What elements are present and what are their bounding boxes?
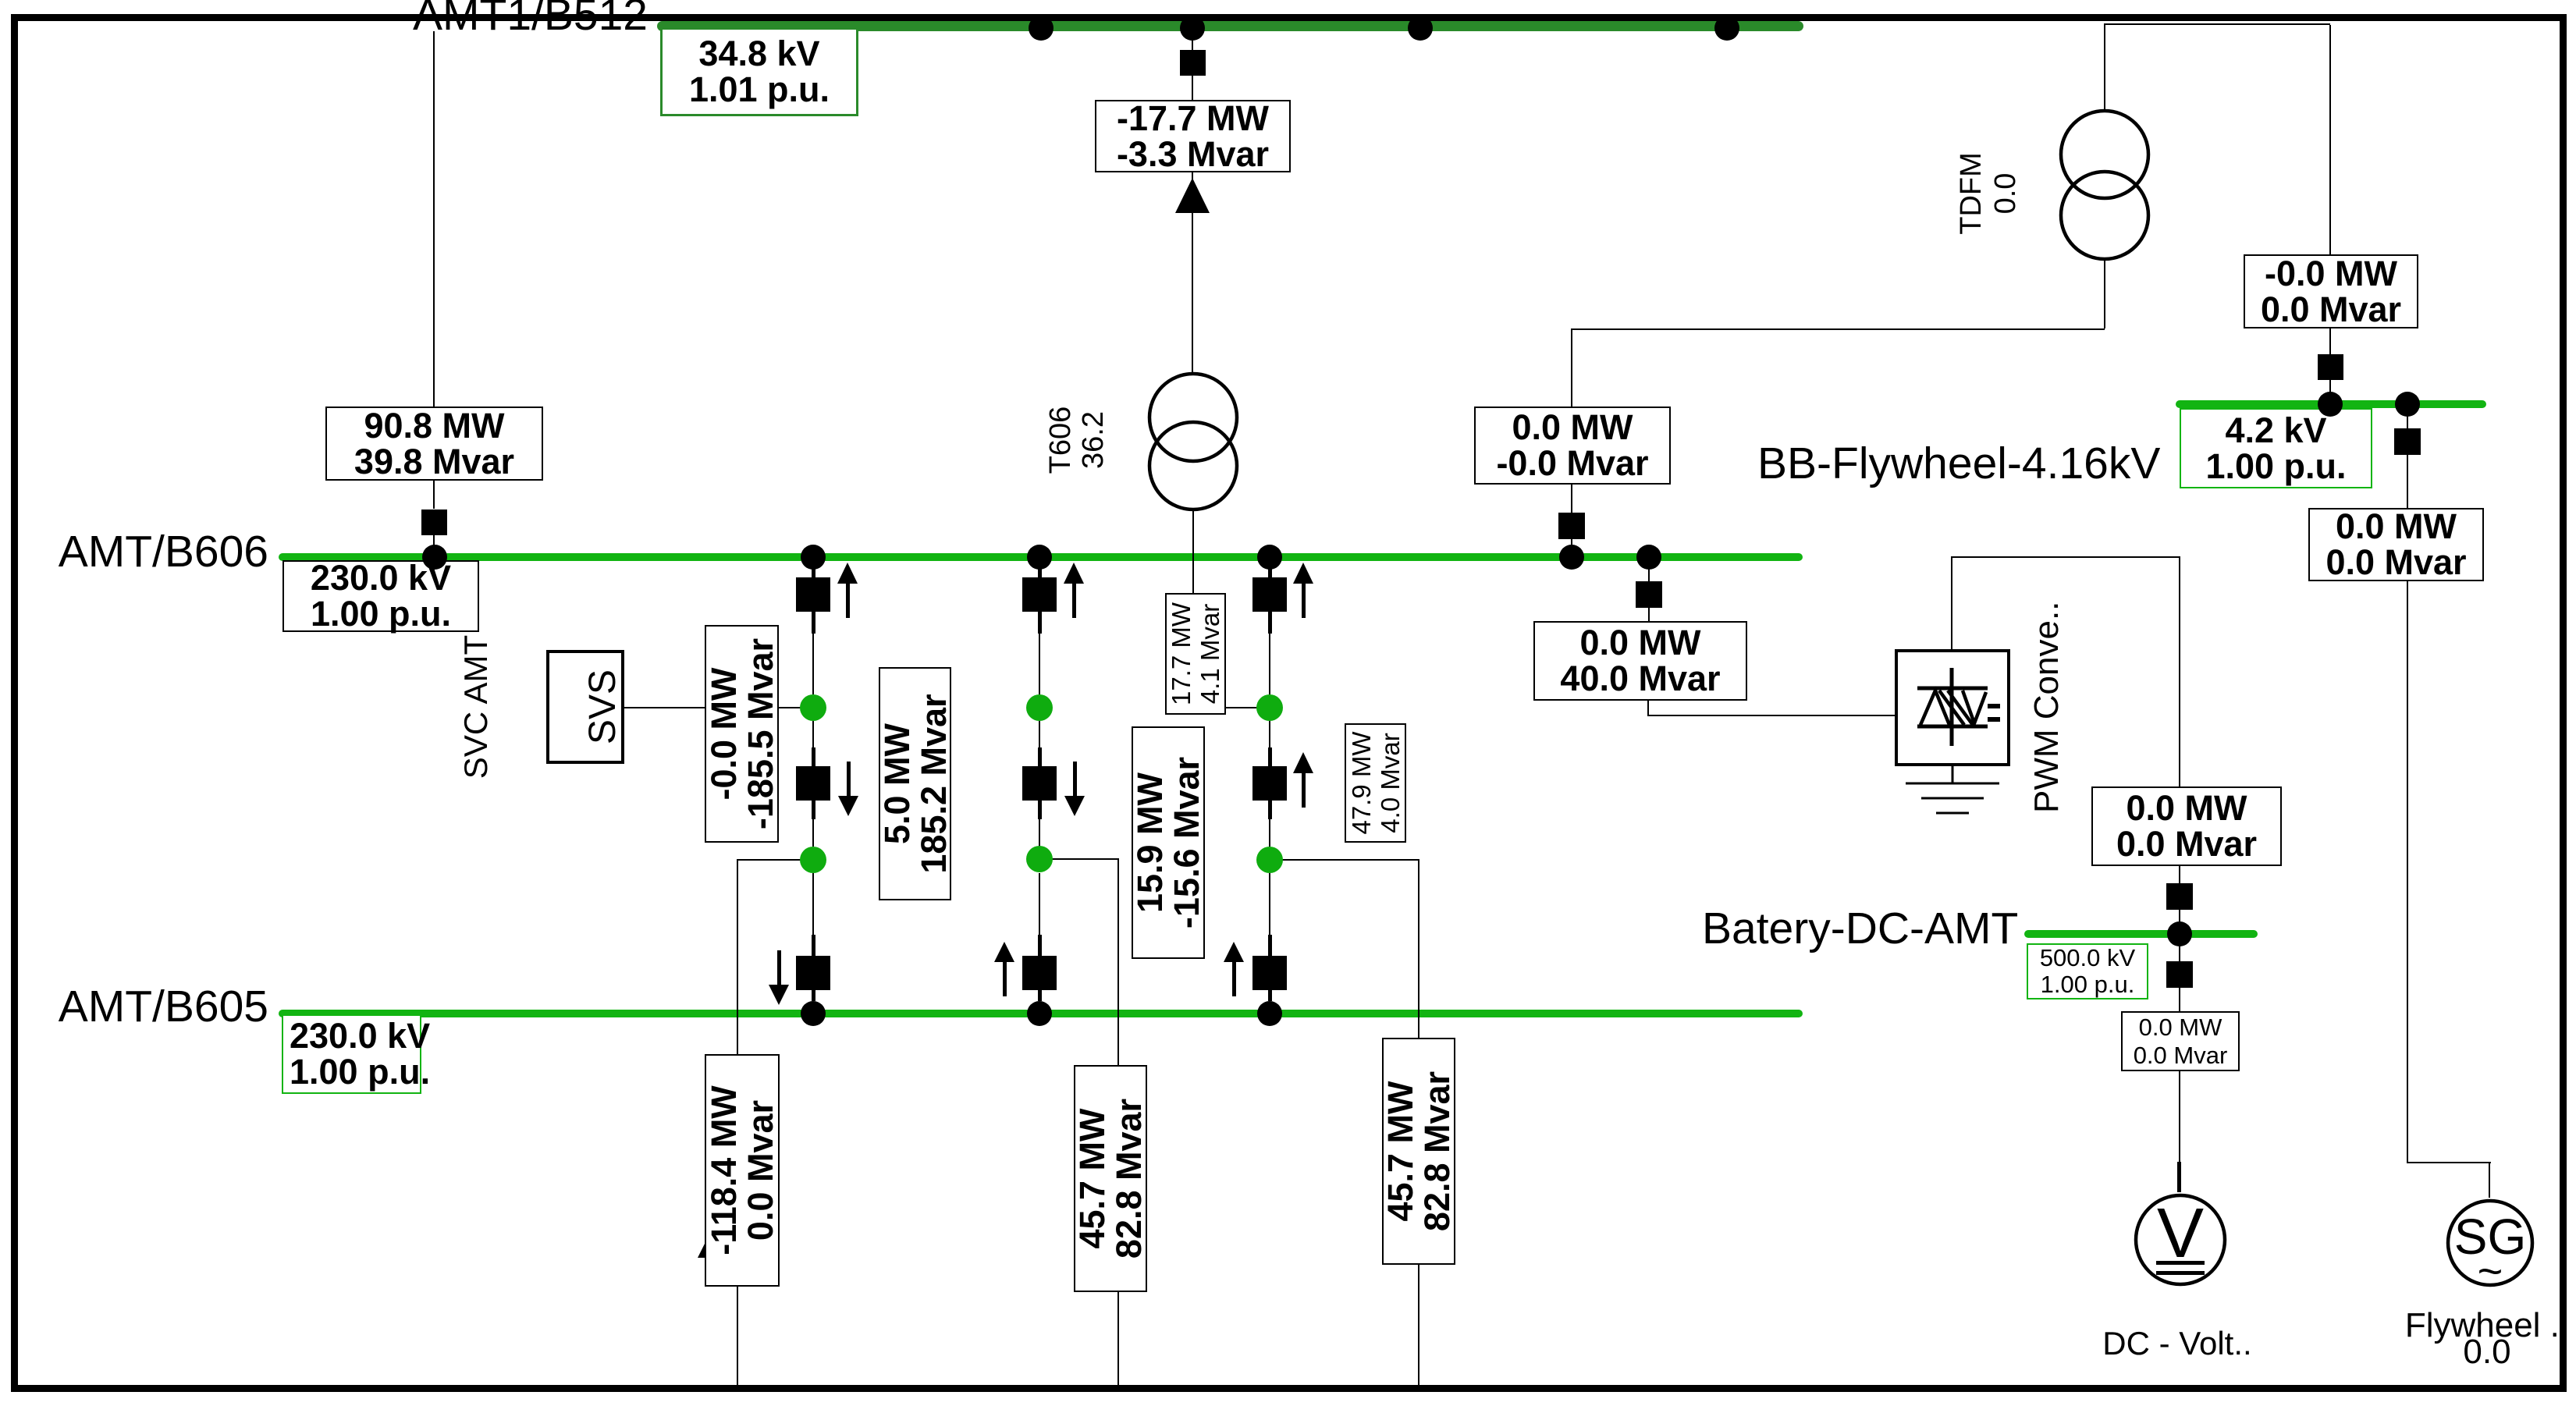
bus AMT/B606	[279, 553, 1803, 561]
wire feeder2 seg2	[1039, 634, 1040, 694]
junction BB bus TDFM	[2318, 392, 2343, 417]
wire battery box to breaker	[2179, 866, 2180, 884]
wire TDFM LV drop	[2104, 260, 2105, 328]
junction battery bus	[2167, 921, 2192, 946]
node feeder2 lower	[1026, 846, 1053, 872]
wire 45.7 load A upper	[1117, 858, 1119, 1065]
junction B606 feeder2	[1027, 545, 1052, 570]
label TDFM	[1953, 140, 2023, 247]
wire battery bus to breaker below	[2179, 938, 2180, 962]
result box 230.0 kV B605	[282, 1014, 421, 1094]
result box 5.0MW 185.2Mvar	[879, 667, 951, 900]
wire feeder1 seg2	[812, 634, 814, 694]
result box 17.7MW 4.1Mvar	[1165, 593, 1226, 715]
breaker TDFM LV	[1558, 513, 1585, 539]
result box 90.8 MW	[325, 407, 543, 481]
label Flywheel	[2370, 1311, 2576, 1340]
stub feeder2 below bottom breaker	[1038, 990, 1042, 1001]
wire TDFM top horizontal	[2104, 23, 2330, 25]
junction BB bus flywheel	[2395, 392, 2420, 417]
PWM converter	[1895, 649, 2010, 766]
wire 90.8MW box to breaker	[433, 481, 435, 509]
arrow feeder3 mid up	[1293, 752, 1313, 773]
wire breaker to battery bus	[2179, 910, 2180, 930]
wire T606 transformer to 17.7MW box	[1192, 511, 1194, 593]
stub feeder1 above mid breaker	[812, 747, 815, 766]
wire feeder2 seg3	[1039, 721, 1040, 749]
wire B512 to T606 breaker	[1192, 31, 1193, 50]
wire to battery chain box	[2179, 556, 2180, 786]
wire feeder1 seg5	[812, 873, 814, 935]
stub feeder3 above mid breaker	[1268, 747, 1272, 766]
transformer TDFM	[2058, 108, 2151, 264]
wire feeder2 seg5	[1039, 873, 1040, 935]
junction B605 feeder1	[801, 1001, 826, 1026]
wire small box to DC source	[2179, 1071, 2180, 1162]
leader feeder1 lower node	[737, 859, 814, 861]
arrow feeder2 bottom up	[994, 942, 1014, 962]
stub feeder2 above bottom breaker	[1038, 935, 1042, 956]
wire -118.4 load drop upper	[737, 859, 738, 1054]
bus BB-Flywheel-4.16kV	[2176, 400, 2486, 408]
result box 15.9MW -15.6Mvar	[1132, 726, 1205, 959]
junction B606 TDFM LV	[1559, 545, 1584, 570]
breaker feeder3 top	[1252, 577, 1287, 612]
wire breaker to BB bus node	[2329, 380, 2331, 400]
junction B605 feeder2	[1027, 1001, 1052, 1026]
result box 45.7MW 82.8Mvar B	[1382, 1038, 1455, 1265]
junction B606 PWM AC	[1636, 545, 1661, 570]
breaker TDFM HV	[2318, 354, 2343, 380]
result box -17.7 MW	[1095, 100, 1291, 172]
stub feeder3 below mid breaker	[1268, 801, 1272, 819]
stub feeder3 below top breaker	[1268, 612, 1272, 634]
arrow feeder1 bottom down	[769, 985, 789, 1005]
wire feeder2 seg4	[1039, 819, 1040, 847]
wire breaker to B606 node	[433, 534, 435, 553]
stub feeder2 top	[1038, 568, 1042, 577]
result box 0.0MW 0.0Mvar flywheel	[2308, 508, 2484, 581]
wire B512 to 90.8MW box	[433, 31, 435, 407]
wire -17.7MW box to T606 transformer	[1192, 172, 1193, 372]
leader feeder3 lower node	[1282, 859, 1419, 861]
DC voltage source	[2133, 1192, 2230, 1289]
result box 0.0MW 0.0Mvar battery	[2091, 786, 2282, 866]
breaker T606 HV	[1180, 50, 1206, 76]
wire breaker to small box	[2179, 988, 2180, 1011]
result box -0.0MW 0.0Mvar TDFM HV	[2244, 254, 2418, 328]
wire BB bus to flywheel breaker	[2407, 408, 2408, 429]
wire feeder2 seg1	[1039, 561, 1040, 577]
leader 17.7MW box to feeder3 node	[1226, 707, 1270, 708]
wire 45.7 load A lower	[1117, 1292, 1119, 1385]
breaker feeder2 bottom	[1022, 956, 1057, 990]
arrow feeder2 mid down	[1064, 796, 1085, 816]
result box -118.4MW 0.0Mvar	[705, 1054, 780, 1287]
stub feeder1 below bottom breaker	[812, 990, 815, 1001]
svg-text:~: ~	[2478, 1246, 2503, 1288]
wire -0.0MW box to breaker	[2329, 328, 2331, 354]
result box 4.2 kV	[2180, 408, 2372, 488]
result box 500.0 kV	[2027, 943, 2148, 999]
wire feeder3 seg1	[1269, 561, 1270, 577]
junction node B512 c	[1714, 16, 1739, 41]
breaker PWM AC	[1636, 581, 1662, 608]
stub feeder3 top	[1268, 568, 1272, 577]
wire 45.7 load B upper	[1418, 859, 1419, 1038]
result box 230.0 kV B606	[282, 560, 479, 632]
bus Batery-DC-AMT	[2024, 930, 2258, 938]
leader feeder2 lower node	[1046, 858, 1118, 860]
bus label AMT/B606	[0, 530, 268, 574]
junction B606 feeder1	[801, 545, 826, 570]
junction node B512 a	[1029, 16, 1053, 41]
result box 45.7MW 82.8Mvar A	[1074, 1065, 1147, 1292]
wire to 0.0MW box	[1571, 330, 1572, 407]
wire PWM breaker to 40Mvar box	[1648, 608, 1650, 621]
result box 34.8 kV	[660, 27, 858, 116]
node feeder3 upper	[1256, 694, 1283, 721]
breaker feeder1 mid	[796, 766, 830, 801]
wire feeder3 seg3	[1269, 721, 1270, 749]
wire feeder1 seg3	[812, 721, 814, 749]
wire box to SG drop	[2407, 581, 2408, 1162]
wire to PWM converter	[1647, 715, 1896, 716]
breaker feeder2 top	[1022, 577, 1057, 612]
node feeder3 lower	[1256, 847, 1283, 873]
node feeder1 upper	[800, 694, 826, 721]
wire feeder3 seg2	[1269, 634, 1270, 694]
SG flywheel machine	[2445, 1198, 2535, 1288]
stub feeder1 below top breaker	[812, 612, 815, 634]
wire feeder3 seg4	[1269, 819, 1270, 847]
stub feeder1 below mid breaker	[812, 801, 815, 819]
stub feeder2 below top breaker	[1038, 612, 1042, 634]
arrow feeder3 bottom up	[1224, 942, 1244, 962]
breaker feeder1 bottom	[796, 956, 830, 990]
wire 40Mvar box down	[1647, 701, 1649, 716]
breaker feeder1 top	[796, 577, 830, 612]
arrow feeder2 top up	[1064, 563, 1084, 584]
stub DC source	[2177, 1162, 2181, 1192]
breaker 90.8MW stub	[421, 509, 447, 535]
arrow feeder3 top up	[1293, 563, 1313, 584]
result box 47.9MW 4.0Mvar	[1345, 723, 1406, 843]
wire top to -0.0MW box	[2329, 25, 2331, 254]
result box 0.0MW 40.0Mvar	[1533, 621, 1747, 701]
wire -118.4 load drop lower	[737, 1287, 738, 1385]
wire 0.0MW box to breaker	[1571, 485, 1572, 513]
ground PWM converter	[1902, 765, 2003, 819]
bus AMT1/B512	[657, 21, 1803, 31]
breaker battery below	[2166, 961, 2193, 988]
breaker flywheel	[2394, 428, 2421, 455]
bus label AMT1/B512	[336, 0, 648, 37]
wire breaker to B606 node right	[1571, 538, 1572, 553]
label SVC AMT	[459, 634, 493, 779]
junction B606 feeder3	[1257, 545, 1282, 570]
junction node B512 b	[1408, 16, 1433, 41]
transformer T606	[1146, 371, 1240, 513]
wire feeder1 seg1	[812, 561, 814, 577]
node feeder1 lower	[800, 847, 826, 873]
arrow -118.4 load half	[696, 1237, 709, 1259]
label T606	[1044, 403, 1110, 478]
junction B606 90.8MW	[422, 545, 447, 570]
stub feeder2 below mid breaker	[1038, 801, 1042, 819]
label DC - Volt	[2060, 1326, 2294, 1361]
wire feeder3 seg5	[1269, 873, 1270, 935]
junction B605 feeder3	[1257, 1001, 1282, 1026]
stub feeder3 above bottom breaker	[1268, 935, 1272, 956]
wire T606 breaker to -17.7MW box	[1192, 76, 1193, 100]
wire feeder1 seg4	[812, 819, 814, 847]
node feeder2 upper	[1026, 694, 1053, 721]
breaker battery above	[2166, 883, 2193, 910]
wire B606 to PWM breaker	[1648, 561, 1650, 582]
result box 0.0MW small battery	[2121, 1011, 2240, 1071]
arrow T606 feed up	[1175, 178, 1210, 213]
wire SVS to feeder1 node	[624, 707, 813, 708]
breaker feeder3 mid	[1252, 766, 1287, 801]
result box 0.0MW -0.0Mvar TDFM	[1474, 407, 1671, 485]
stub feeder3 below bottom breaker	[1268, 990, 1272, 1001]
stub feeder1 top	[812, 568, 815, 577]
wire PWM top horizontal	[1951, 556, 2180, 558]
wire SG horizontal jog	[2407, 1162, 2491, 1163]
stub feeder1 above bottom breaker	[812, 935, 815, 956]
bus AMT/B605	[279, 1010, 1803, 1017]
result box -0.0MW -185.5Mvar	[705, 625, 779, 843]
breaker feeder2 mid	[1022, 766, 1057, 801]
arrow feeder1 top up	[837, 563, 858, 584]
label Flywheel 0.0	[2370, 1337, 2576, 1367]
bus label BB-Flywheel-4.16kV	[1757, 442, 2148, 486]
SVS static var system	[546, 650, 624, 764]
bus label AMT/B605	[0, 985, 268, 1029]
wire to SG machine	[2489, 1162, 2490, 1198]
junction node B512 T606	[1180, 16, 1205, 41]
wire PWM top riser	[1951, 556, 1952, 649]
label PWM Converter	[2029, 606, 2065, 813]
wire TDFM LV horizontal	[1571, 328, 2105, 330]
wire TDFM HV riser	[2104, 23, 2105, 112]
wire flywheel breaker to box	[2407, 455, 2408, 508]
stub feeder2 above mid breaker	[1038, 747, 1042, 766]
breaker feeder3 bottom	[1252, 956, 1287, 990]
wire 45.7 load B lower	[1418, 1265, 1419, 1385]
arrow feeder1 mid down	[838, 796, 858, 816]
bus label Batery-DC-AMT	[1702, 907, 2014, 951]
